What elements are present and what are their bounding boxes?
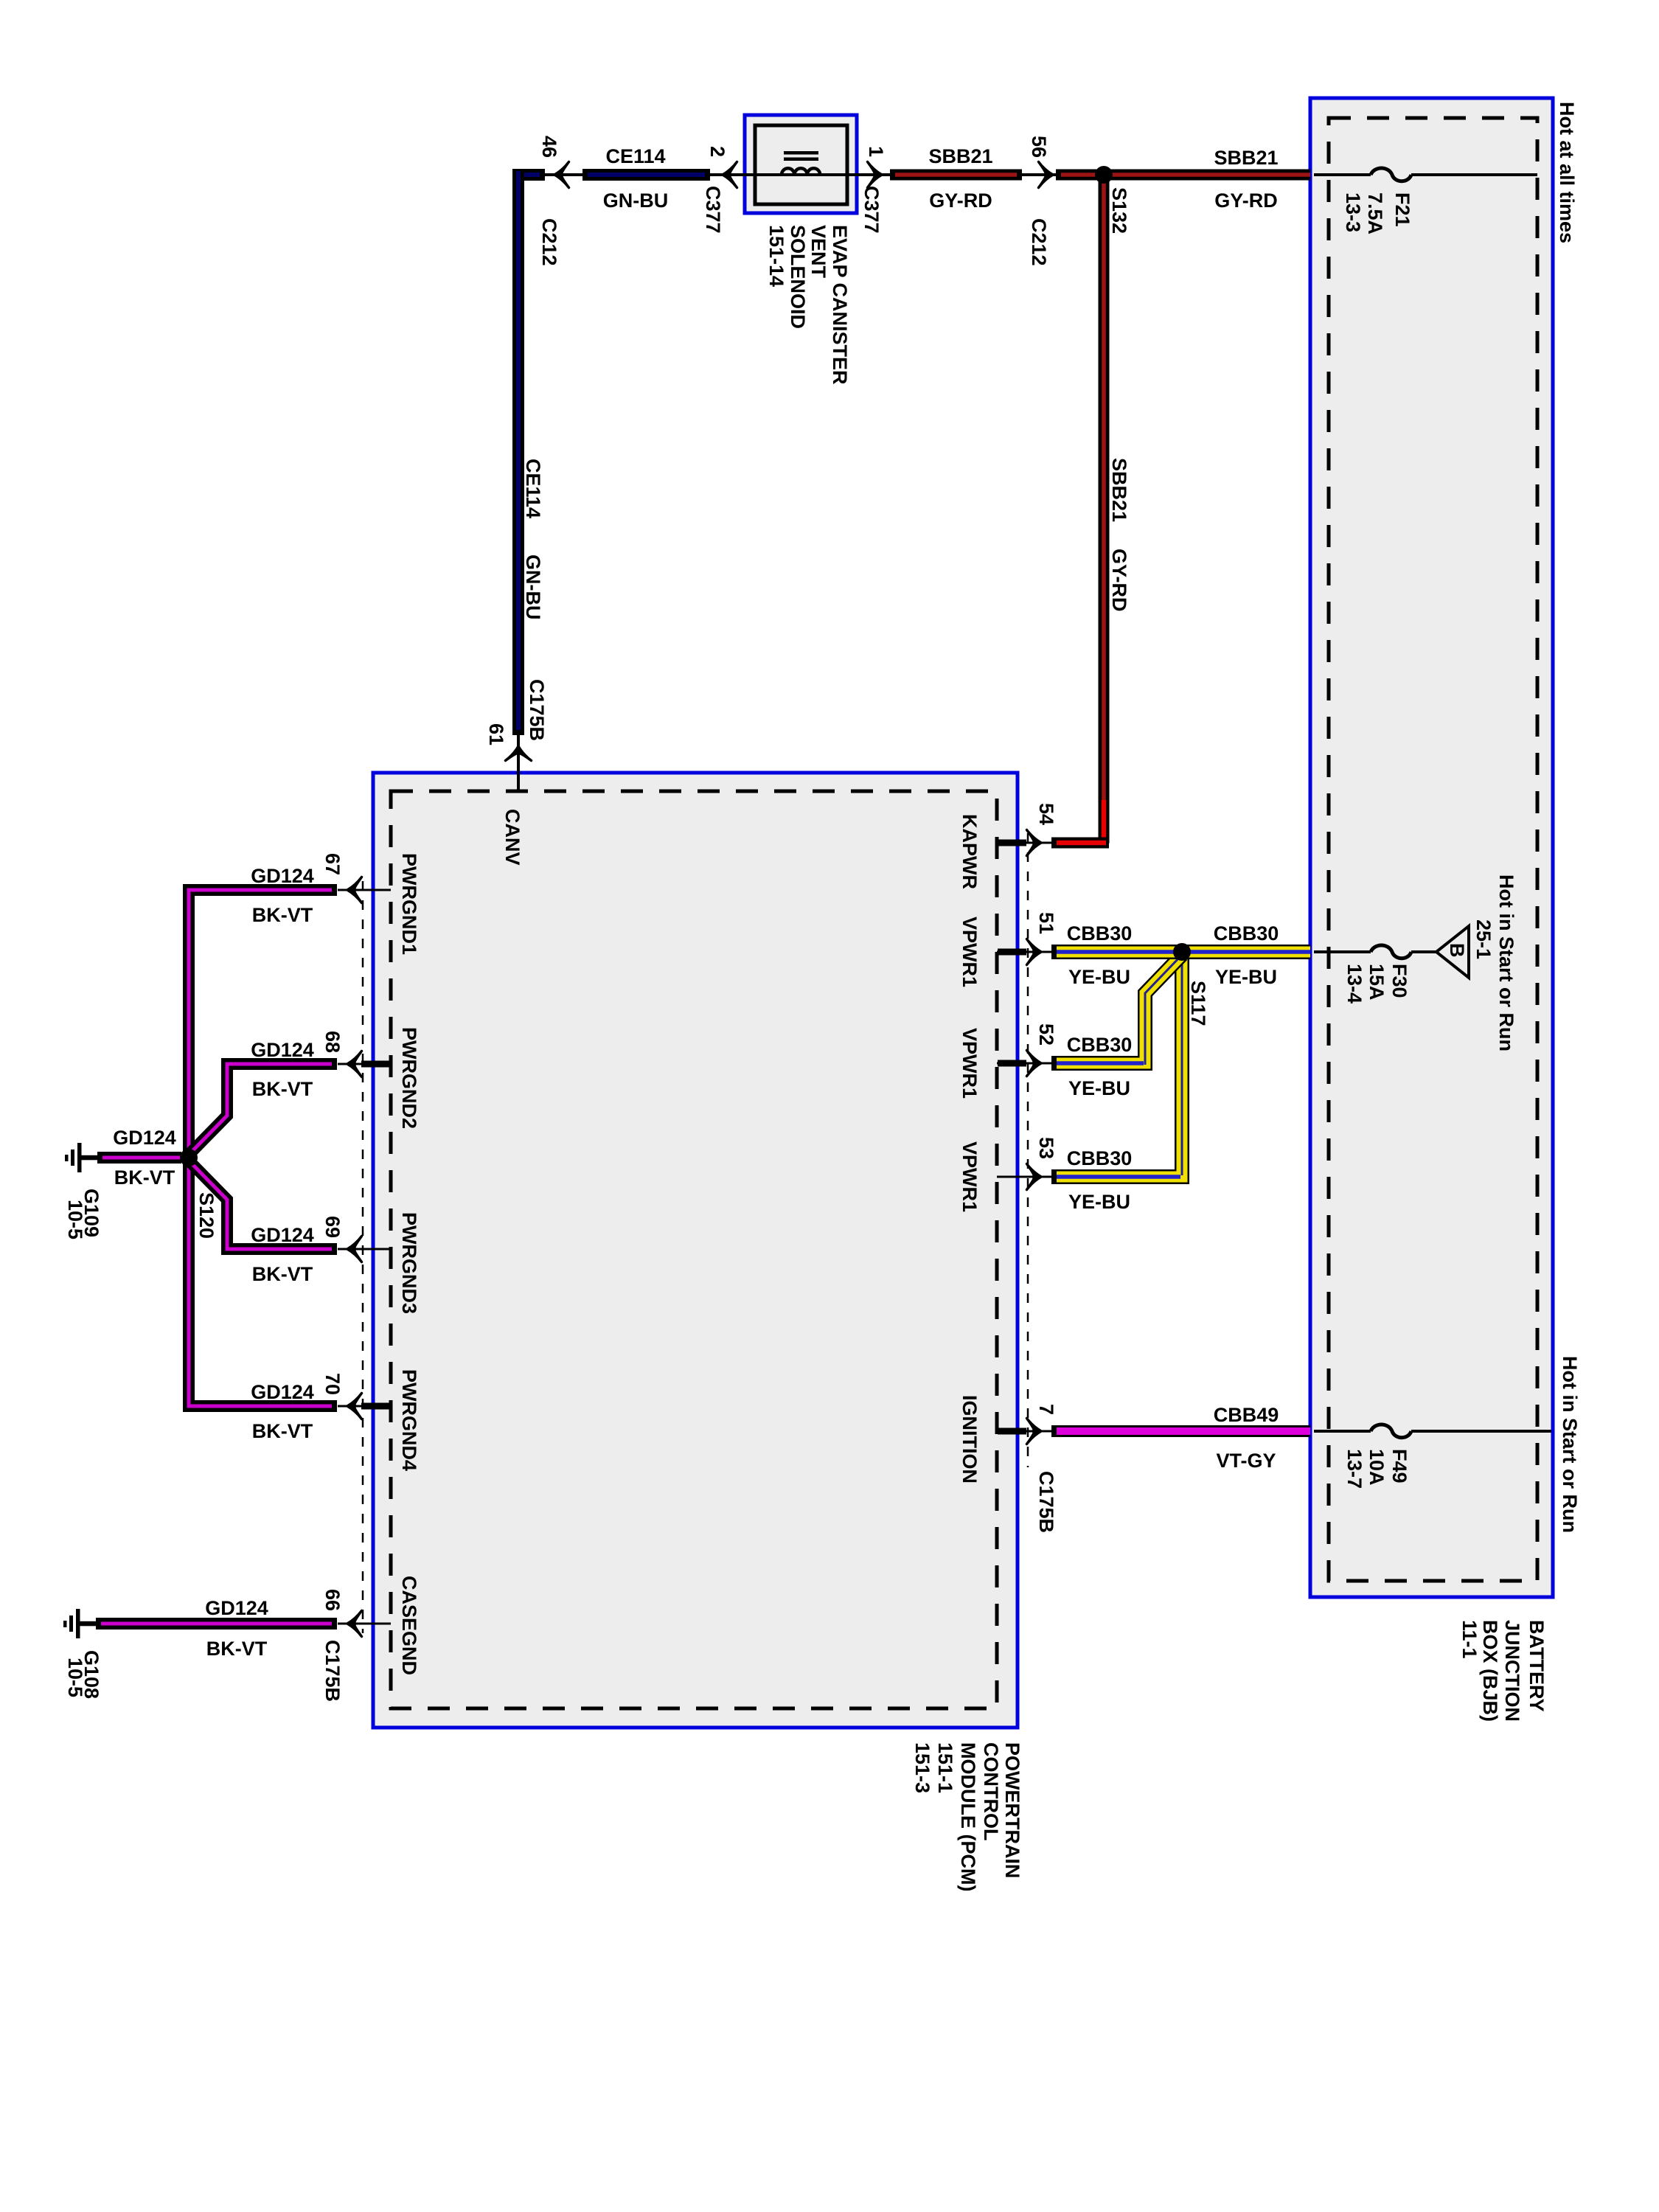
svg-text:151-3: 151-3 (911, 1742, 933, 1793)
svg-text:CBB30: CBB30 (1067, 922, 1133, 945)
svg-text:2: 2 (706, 146, 728, 157)
svg-text:CBB30: CBB30 (1067, 1034, 1133, 1056)
svg-text:VPWR1: VPWR1 (959, 1028, 981, 1099)
svg-text:GY-RD: GY-RD (1108, 549, 1130, 612)
svg-text:BK-VT: BK-VT (252, 904, 313, 926)
svg-text:54: 54 (1035, 803, 1057, 825)
svg-text:10A: 10A (1366, 1449, 1388, 1486)
svg-text:S117: S117 (1187, 981, 1209, 1026)
svg-text:53: 53 (1035, 1137, 1057, 1159)
svg-text:BK-VT: BK-VT (252, 1078, 313, 1100)
svg-text:151-1: 151-1 (934, 1742, 956, 1793)
svg-text:69: 69 (321, 1216, 344, 1238)
svg-text:CBB30: CBB30 (1214, 922, 1279, 945)
svg-text:10-5: 10-5 (64, 1200, 86, 1239)
svg-text:VPWR1: VPWR1 (959, 917, 981, 987)
svg-text:25-1: 25-1 (1472, 919, 1495, 959)
svg-text:YE-BU: YE-BU (1215, 966, 1277, 988)
svg-text:Hot in Start or Run: Hot in Start or Run (1559, 1356, 1581, 1533)
svg-text:BK-VT: BK-VT (252, 1263, 313, 1285)
svg-text:CE114: CE114 (522, 459, 544, 518)
svg-text:61: 61 (485, 723, 507, 745)
svg-text:YE-BU: YE-BU (1068, 966, 1130, 988)
svg-text:S132: S132 (1108, 187, 1130, 234)
svg-text:EVAP CANISTER: EVAP CANISTER (829, 225, 851, 385)
svg-text:15A: 15A (1366, 964, 1388, 1001)
svg-text:SOLENOID: SOLENOID (787, 225, 809, 329)
svg-text:CONTROL: CONTROL (980, 1742, 1002, 1840)
svg-text:S120: S120 (195, 1192, 218, 1239)
svg-text:C377: C377 (702, 186, 724, 234)
svg-text:JUNCTION: JUNCTION (1501, 1620, 1523, 1722)
svg-text:C212: C212 (538, 218, 560, 266)
svg-text:CE114: CE114 (605, 145, 665, 167)
svg-text:GN-BU: GN-BU (603, 189, 669, 212)
svg-text:GD124: GD124 (251, 865, 314, 887)
svg-text:C175B: C175B (321, 1640, 344, 1702)
svg-text:GD124: GD124 (251, 1039, 314, 1061)
svg-text:70: 70 (321, 1373, 344, 1395)
svg-text:GD124: GD124 (113, 1127, 176, 1149)
svg-text:BOX (BJB): BOX (BJB) (1479, 1620, 1501, 1722)
svg-text:GN-BU: GN-BU (522, 554, 544, 620)
svg-text:1: 1 (865, 146, 887, 157)
svg-text:C175B: C175B (526, 679, 548, 741)
svg-text:GD124: GD124 (251, 1381, 314, 1403)
svg-text:7: 7 (1035, 1404, 1057, 1415)
svg-text:C175B: C175B (1035, 1471, 1057, 1533)
svg-text:F49: F49 (1388, 1449, 1411, 1484)
svg-text:CASEGND: CASEGND (398, 1576, 420, 1675)
svg-text:YE-BU: YE-BU (1068, 1077, 1130, 1099)
svg-text:BK-VT: BK-VT (114, 1166, 175, 1189)
svg-text:52: 52 (1035, 1023, 1057, 1046)
svg-text:BK-VT: BK-VT (252, 1420, 313, 1442)
svg-text:11-1: 11-1 (1458, 1620, 1481, 1659)
svg-text:VENT: VENT (807, 225, 829, 279)
svg-text:CBB30: CBB30 (1067, 1147, 1133, 1169)
svg-text:YE-BU: YE-BU (1068, 1191, 1130, 1213)
svg-text:67: 67 (321, 853, 344, 875)
svg-text:GY-RD: GY-RD (929, 189, 992, 212)
svg-text:KAPWR: KAPWR (959, 814, 981, 889)
svg-text:PWRGND4: PWRGND4 (398, 1369, 420, 1471)
svg-text:GD124: GD124 (251, 1224, 314, 1246)
svg-text:13-3: 13-3 (1342, 192, 1364, 232)
svg-text:SBB21: SBB21 (1108, 458, 1130, 522)
svg-text:MODULE (PCM): MODULE (PCM) (957, 1742, 979, 1891)
svg-text:Hot in Start or Run: Hot in Start or Run (1495, 874, 1517, 1051)
svg-text:F30: F30 (1388, 964, 1411, 998)
svg-text:SBB21: SBB21 (1214, 147, 1278, 169)
svg-text:SBB21: SBB21 (928, 145, 992, 167)
svg-text:13-7: 13-7 (1343, 1449, 1366, 1489)
svg-text:BATTERY: BATTERY (1526, 1620, 1548, 1712)
svg-text:151-14: 151-14 (765, 225, 787, 287)
svg-text:VT-GY: VT-GY (1216, 1450, 1276, 1472)
svg-text:CANV: CANV (501, 809, 524, 866)
svg-text:46: 46 (538, 136, 560, 158)
svg-text:C212: C212 (1028, 218, 1050, 266)
svg-text:C377: C377 (860, 186, 883, 234)
svg-text:B: B (1446, 943, 1468, 958)
svg-text:CBB49: CBB49 (1214, 1404, 1279, 1426)
svg-text:56: 56 (1028, 136, 1050, 158)
svg-text:F21: F21 (1391, 192, 1413, 227)
svg-text:Hot at all times: Hot at all times (1556, 102, 1578, 243)
svg-text:PWRGND3: PWRGND3 (398, 1212, 420, 1314)
svg-text:BK-VT: BK-VT (206, 1638, 268, 1660)
svg-text:IGNITION: IGNITION (959, 1395, 981, 1484)
svg-text:10-5: 10-5 (64, 1658, 86, 1697)
svg-text:GD124: GD124 (205, 1597, 268, 1619)
svg-text:PWRGND1: PWRGND1 (398, 853, 420, 955)
svg-text:51: 51 (1035, 912, 1057, 934)
svg-text:7.5A: 7.5A (1364, 192, 1386, 234)
svg-text:13-4: 13-4 (1343, 964, 1366, 1004)
svg-text:POWERTRAIN: POWERTRAIN (1001, 1742, 1023, 1879)
svg-text:GY-RD: GY-RD (1214, 189, 1278, 212)
svg-text:66: 66 (321, 1589, 344, 1611)
svg-text:68: 68 (321, 1031, 344, 1053)
svg-text:PWRGND2: PWRGND2 (398, 1027, 420, 1129)
svg-text:VPWR1: VPWR1 (959, 1141, 981, 1212)
